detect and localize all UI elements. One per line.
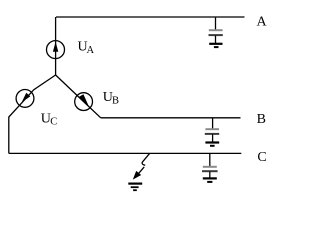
svg-text:B: B [257,112,266,127]
svg-text:C: C [257,150,266,165]
svg-text:A: A [87,45,95,56]
svg-text:B: B [112,96,119,107]
svg-text:C: C [50,117,57,128]
svg-text:A: A [257,15,268,30]
